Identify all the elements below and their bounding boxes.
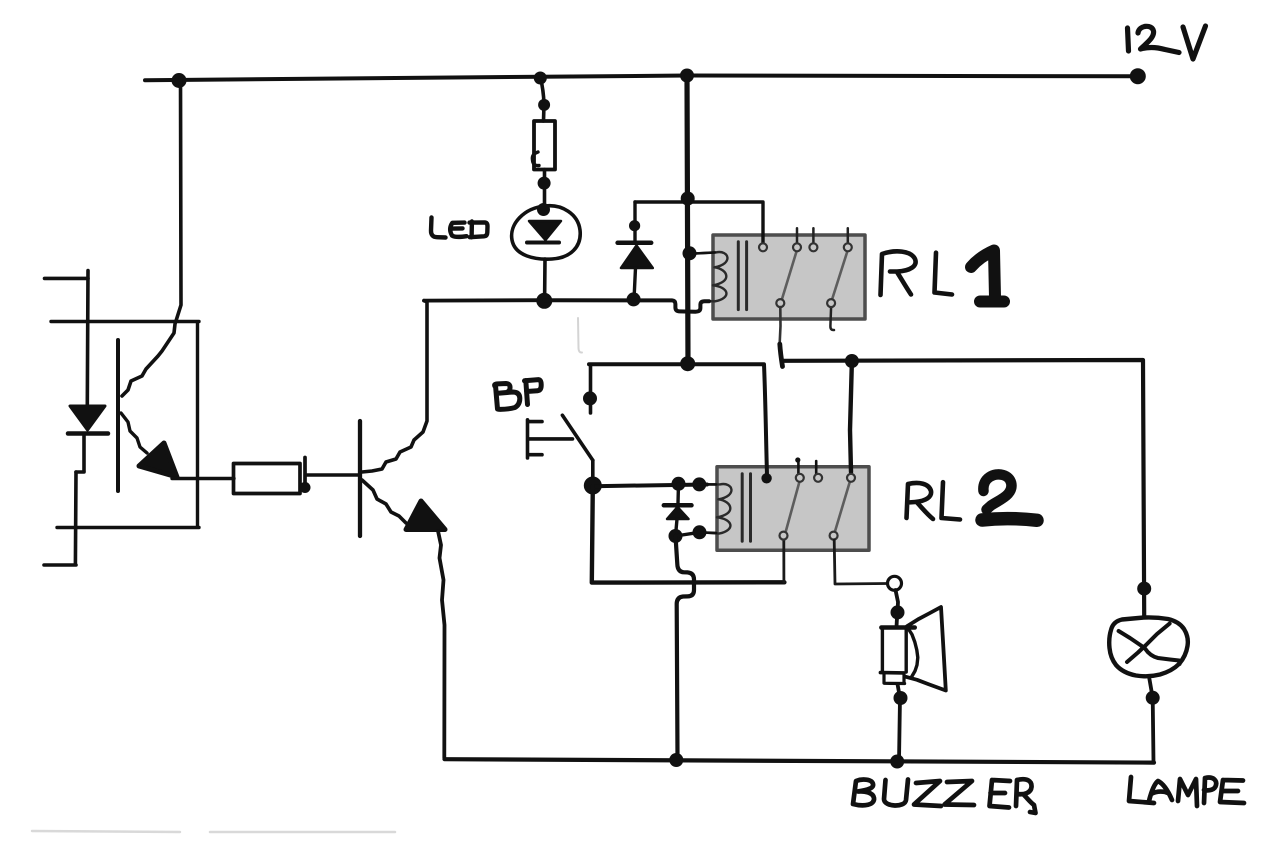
wire phototransistor emitter to base resistor <box>197 477 234 480</box>
node RL2 contact1 (filled) <box>761 473 771 483</box>
node rail right end terminal <box>1130 68 1146 84</box>
wire RL2 contact4 feed from lamp line <box>850 361 852 472</box>
node D2 bottom junction <box>669 529 683 543</box>
buzzer BZ <box>880 590 945 761</box>
node buzzer top <box>891 605 905 619</box>
wire LED junction to RL1 coil bottom (with dip under crossing) <box>545 300 709 312</box>
wire D2 bottom to RL2 coil bottom <box>676 533 699 536</box>
wire RL2 bottom contact2 to buzzer connector <box>834 540 887 584</box>
relay RL1 contacts <box>759 243 852 307</box>
node rail-left junction <box>172 73 187 88</box>
wire from rail down to optocoupler collector <box>122 78 181 396</box>
optocoupler phototransistor emitter wire + arrow <box>121 413 197 479</box>
wire BP top feed (branch to RL2 contact1) <box>589 364 767 475</box>
wire base resistor to transistor base <box>307 473 360 477</box>
label BP <box>495 380 542 410</box>
optocoupler LED (triangle + cathode bar) <box>68 406 108 434</box>
node above resistor R1 <box>538 99 550 111</box>
label RL1 <box>881 251 953 295</box>
node BP top stub dot <box>583 391 597 405</box>
relay RL2 contacts <box>780 474 856 540</box>
wire 12V top supply rail <box>145 76 1138 81</box>
node D1 bottom junction <box>627 292 641 306</box>
transistor Q1 base bar <box>358 421 362 536</box>
node rail-relay-branch junction <box>680 69 694 83</box>
lamp LA <box>1109 617 1188 762</box>
node branch-BP junction <box>680 356 695 371</box>
node lamp bottom <box>1146 691 1160 705</box>
optocoupler phototransistor bar <box>116 340 120 491</box>
relay RL1 pin stubs <box>797 228 848 330</box>
optocoupler input bottom-left terminal lead <box>44 436 84 565</box>
relay RL2 coil stubs <box>698 484 716 533</box>
label 12V <box>1128 26 1206 59</box>
relay RL2 pin stubs <box>798 460 816 474</box>
relay RL2 coil <box>701 484 731 534</box>
buzzer connector ring <box>888 576 902 590</box>
faint scan artifact below LED junction <box>578 318 582 353</box>
node RL2 coil top junction <box>692 477 706 491</box>
node D2 top junction <box>672 477 686 491</box>
label LED <box>431 218 488 238</box>
wire BP bottom down then across (RL2 contact-bottom return) <box>592 486 785 583</box>
relay RL1 coil <box>692 252 727 301</box>
wire RL2 bottom contact1 stub <box>782 540 785 582</box>
resistor R1 (top, vertical) <box>532 78 555 209</box>
wire main vertical branch (rail to BP wire) <box>687 76 688 364</box>
push button BP top stub <box>589 366 593 413</box>
wire collector rail to LED junction <box>424 298 545 302</box>
node D1 top <box>629 220 640 231</box>
faint scan artifact bottom-left <box>32 831 395 832</box>
label BUZZER <box>853 779 1036 813</box>
diode D2 (RL2 flyback) <box>664 484 692 536</box>
LED indicator (circle with diode) <box>512 206 581 300</box>
wire RL1 blade1 down to lamp line <box>780 307 783 367</box>
wire D2 bottom down to ground rail (with jog) <box>676 536 695 757</box>
node rail-buzzer junction <box>890 755 904 769</box>
node LED bottom junction <box>536 293 552 309</box>
node resistor-base junction <box>300 482 311 493</box>
node rail-D2 junction <box>669 753 683 767</box>
node below resistor R1 <box>538 177 551 190</box>
relay RL2 body <box>717 467 869 551</box>
node lamp feed dot <box>1137 582 1151 596</box>
relay RL1 body <box>713 235 865 319</box>
transistor Q1 collector wire <box>362 301 427 472</box>
optocoupler OC1 box <box>51 322 199 528</box>
diode D1 (RL1 flyback) <box>618 202 653 299</box>
transistor Q1 emitter wire + arrow <box>362 480 445 758</box>
node branch-coil junction <box>683 246 697 260</box>
optocoupler input top-left terminal lead <box>45 271 89 405</box>
push button BP bottom stub <box>591 460 595 485</box>
wire bottom ground rail <box>445 759 1155 762</box>
node branch-contact1 junction <box>681 192 695 206</box>
relay RL1 switch blades <box>782 252 847 300</box>
node BP bottom junction <box>584 477 602 495</box>
wire BP bottom to RL2 coil top <box>593 485 707 487</box>
node rail-resistor junction <box>534 72 547 85</box>
node LED top <box>537 203 550 216</box>
node buzzer bottom <box>894 691 908 705</box>
node RL2 coil bottom junction <box>693 525 707 539</box>
wire lamp feed (to the right and down to lamp) <box>784 360 1144 616</box>
ink blob above RL2 pin2 <box>795 457 800 462</box>
push button BP actuator <box>528 420 573 458</box>
wire RL1 contact1 feed (from branch across to relay pin) <box>635 202 763 245</box>
push button BP lever <box>562 415 592 460</box>
resistor R2 (base resistor, horizontal) <box>234 458 306 494</box>
wire RL1 coil top feed <box>690 252 716 253</box>
node lamp-feed / RL2 contact4 junction <box>845 354 859 368</box>
relay RL2 switch blades <box>786 482 850 532</box>
label RL2 <box>907 482 961 519</box>
label LAMPE <box>1129 777 1244 806</box>
